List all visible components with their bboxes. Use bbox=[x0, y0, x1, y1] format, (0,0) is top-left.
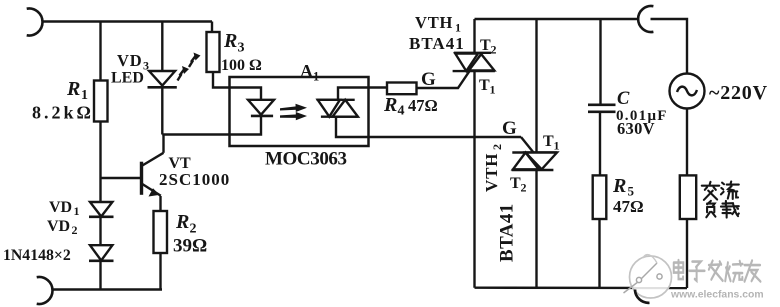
svg-text:1: 1 bbox=[81, 88, 88, 103]
wire R3 to opto anode bbox=[213, 72, 261, 100]
svg-text:47Ω: 47Ω bbox=[408, 96, 438, 115]
svg-text:3: 3 bbox=[238, 41, 245, 56]
svg-text:1: 1 bbox=[455, 21, 461, 35]
svg-text:2SC1000: 2SC1000 bbox=[159, 170, 230, 189]
terminal bottom-left bbox=[37, 277, 53, 304]
svg-text:2: 2 bbox=[72, 223, 78, 237]
wire VTH1 T2 up to top rail bbox=[473, 19, 475, 53]
svg-text:R: R bbox=[175, 211, 189, 233]
label R1 bbox=[66, 78, 88, 103]
svg-text:2: 2 bbox=[491, 43, 497, 57]
triac VTH1 bbox=[453, 53, 495, 71]
label fuzai bbox=[706, 201, 738, 218]
wire gate G2 slant bbox=[521, 137, 534, 153]
wire top-right rail bbox=[475, 18, 639, 20]
LED VD3 bbox=[148, 71, 177, 87]
wire source to load bbox=[686, 109, 688, 176]
wire VD2 to bottom rail bbox=[99, 261, 101, 290]
svg-text:www.elecfans.com: www.elecfans.com bbox=[670, 290, 764, 301]
wire capacitor to R5 bbox=[599, 112, 601, 176]
wire opto output bottom bbox=[336, 117, 521, 137]
op-to coupler box A1 bbox=[230, 77, 369, 146]
terminal top-right bbox=[638, 6, 653, 32]
wire collector to opto input low bbox=[162, 135, 164, 153]
terminal bottom-right bbox=[635, 290, 650, 303]
wire VTH2 T1 up bbox=[535, 19, 537, 153]
wire base tap bbox=[101, 177, 141, 179]
svg-text:1: 1 bbox=[74, 204, 80, 218]
label T2 of VTH1 bbox=[480, 37, 497, 57]
svg-text:T: T bbox=[479, 77, 490, 94]
transistor VT bbox=[142, 153, 164, 197]
svg-text:1: 1 bbox=[313, 70, 319, 84]
label T1 of VTH1 bbox=[479, 77, 496, 97]
svg-text:39Ω: 39Ω bbox=[173, 236, 207, 257]
wire opto input cathode bbox=[162, 116, 261, 135]
svg-text:VD: VD bbox=[117, 51, 142, 70]
AC load box bbox=[680, 175, 696, 219]
svg-text:2: 2 bbox=[190, 222, 197, 237]
svg-text:1: 1 bbox=[490, 83, 496, 97]
svg-text:1: 1 bbox=[554, 139, 560, 153]
label R4 47Ω bbox=[383, 94, 438, 119]
label VTH2 vertical bbox=[482, 144, 504, 192]
opto triac bbox=[317, 100, 358, 117]
svg-text:R: R bbox=[383, 94, 397, 116]
wire R2 bottom lead bbox=[159, 253, 161, 290]
label VTH1 bbox=[415, 13, 461, 35]
wire top-right to source bbox=[651, 19, 688, 74]
svg-text:47Ω: 47Ω bbox=[613, 197, 644, 216]
svg-text:1N4148×2: 1N4148×2 bbox=[3, 247, 71, 264]
resistor R3 bbox=[207, 32, 220, 72]
svg-text:~220V: ~220V bbox=[709, 82, 768, 104]
wire emitter lead bbox=[159, 196, 161, 211]
svg-text:BTA41: BTA41 bbox=[409, 34, 465, 53]
svg-text:A: A bbox=[300, 61, 313, 81]
opto coupling arrows bbox=[280, 104, 307, 121]
wire bottom-right rail bbox=[475, 287, 688, 290]
svg-text:G: G bbox=[502, 118, 517, 139]
svg-text:2: 2 bbox=[521, 181, 527, 195]
svg-text:G: G bbox=[421, 69, 436, 90]
label T2 of VTH2 bbox=[510, 175, 527, 195]
resistor R2 bbox=[154, 211, 168, 253]
svg-text:VTH: VTH bbox=[482, 153, 501, 192]
svg-text:R: R bbox=[612, 175, 626, 197]
wire VD1 to VD2 bbox=[99, 217, 101, 245]
wire top-left rail bbox=[43, 20, 212, 22]
resistor R4 bbox=[387, 83, 417, 95]
svg-text:R: R bbox=[223, 30, 237, 52]
LED VD3 arrows bbox=[178, 53, 201, 81]
wire bottom-left rail bbox=[53, 288, 162, 290]
node LED VD3 top tap bbox=[161, 22, 163, 72]
svg-text:VD: VD bbox=[49, 199, 72, 216]
watermark logo bbox=[624, 255, 673, 299]
watermark text dianzifashaoyou bbox=[674, 260, 761, 282]
wire capacitor top lead bbox=[599, 19, 601, 104]
diode VD2 bbox=[89, 245, 114, 261]
wire VTH2 T2 down bbox=[535, 170, 537, 288]
AC source bbox=[670, 74, 705, 109]
capacitor C bbox=[588, 105, 616, 112]
svg-text:BTA41: BTA41 bbox=[497, 203, 518, 262]
svg-text:630V: 630V bbox=[617, 119, 655, 138]
label jiaoliu bbox=[702, 182, 739, 200]
triac VTH2 bbox=[512, 153, 557, 171]
svg-text:100 Ω: 100 Ω bbox=[221, 57, 262, 74]
svg-text:4: 4 bbox=[398, 104, 405, 119]
label T1 of VTH2 bbox=[543, 133, 560, 153]
wire LED cathode down bbox=[161, 87, 163, 134]
svg-text:LED: LED bbox=[111, 70, 144, 87]
svg-text:VD: VD bbox=[47, 218, 70, 235]
svg-text:MOC3063: MOC3063 bbox=[265, 149, 347, 170]
svg-text:C: C bbox=[617, 89, 630, 109]
wire load bottom bbox=[686, 219, 688, 288]
svg-text:T: T bbox=[543, 133, 554, 150]
wire R1 bottom to VD1 bbox=[99, 122, 101, 203]
label A1 bbox=[300, 61, 319, 84]
diode VD1 bbox=[89, 202, 114, 217]
svg-text:VTH: VTH bbox=[415, 13, 453, 32]
label VD3 bbox=[117, 51, 149, 73]
svg-text:8.2kΩ: 8.2kΩ bbox=[32, 103, 94, 123]
label R2 bbox=[175, 211, 197, 237]
label VD2 bbox=[47, 218, 78, 237]
resistor R1 bbox=[94, 81, 108, 122]
svg-text:2: 2 bbox=[490, 144, 504, 150]
node R3 top tap bbox=[211, 22, 213, 33]
label R5 bbox=[612, 175, 635, 199]
wire R4 to gate G1 bbox=[417, 54, 482, 88]
svg-text:T: T bbox=[510, 175, 521, 192]
label R3 bbox=[223, 30, 245, 56]
wire R5 bottom bbox=[598, 219, 600, 288]
opto LED bbox=[248, 100, 274, 116]
wire VTH1 T1 down to bottom rail bbox=[473, 71, 475, 288]
terminal top-left bbox=[27, 8, 43, 35]
wire opto output top bbox=[338, 88, 387, 100]
label VD1 bbox=[49, 199, 80, 218]
node R1 top tap bbox=[99, 22, 101, 81]
svg-text:T: T bbox=[480, 37, 491, 54]
svg-text:R: R bbox=[66, 78, 80, 100]
resistor R5 bbox=[593, 175, 607, 219]
